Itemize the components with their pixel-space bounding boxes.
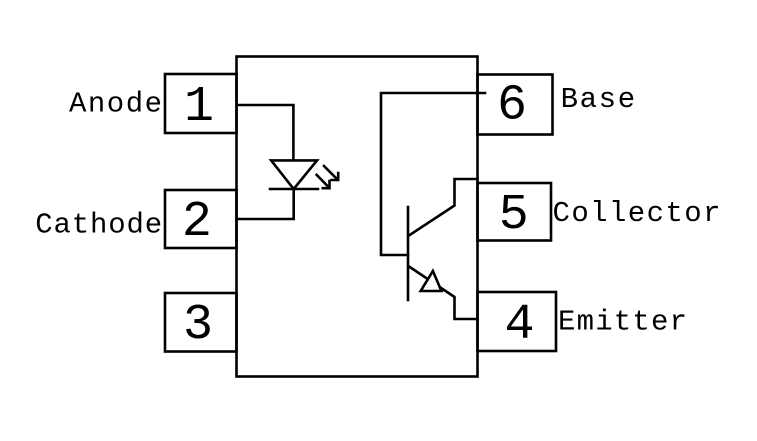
transistor Q1 collector wire to pin5 <box>409 179 478 236</box>
svg-text:Cathode: Cathode <box>35 208 162 241</box>
svg-text:6: 6 <box>497 78 527 135</box>
pin 5 pad <box>478 183 552 241</box>
svg-text:2: 2 <box>182 194 212 251</box>
svg-text:1: 1 <box>184 79 214 136</box>
LED light arrow 1 head <box>332 173 339 180</box>
pin 1 pad <box>165 74 237 133</box>
LED D1 cathode bar <box>270 188 318 191</box>
LED light arrow 2 head <box>323 181 330 188</box>
wire pin2 to LED cathode <box>237 189 294 219</box>
svg-text:5: 5 <box>499 187 529 244</box>
LED light arrow 2 shaft <box>317 175 329 188</box>
LED light arrow 1 shaft <box>324 166 338 180</box>
pin 4 pad <box>478 292 557 351</box>
pin 6 pad <box>478 75 553 135</box>
pin 3 pad <box>165 293 237 352</box>
transistor Q1 emitter arrow <box>421 271 442 291</box>
wire pin6 to transistor base <box>381 93 485 255</box>
pin 2 pad <box>165 190 237 248</box>
svg-text:Emitter: Emitter <box>558 306 687 339</box>
svg-text:Base: Base <box>561 83 636 116</box>
LED D1 triangle <box>271 160 317 189</box>
IC body U1 <box>237 57 478 377</box>
svg-text:Anode: Anode <box>69 88 162 121</box>
transistor Q1 base bar <box>407 207 410 300</box>
svg-text:3: 3 <box>183 297 213 354</box>
svg-text:4: 4 <box>504 297 534 354</box>
svg-text:Collector: Collector <box>553 197 721 230</box>
transistor Q1 emitter wire to pin4 <box>409 267 478 320</box>
wire pin1 to LED anode <box>237 105 293 160</box>
